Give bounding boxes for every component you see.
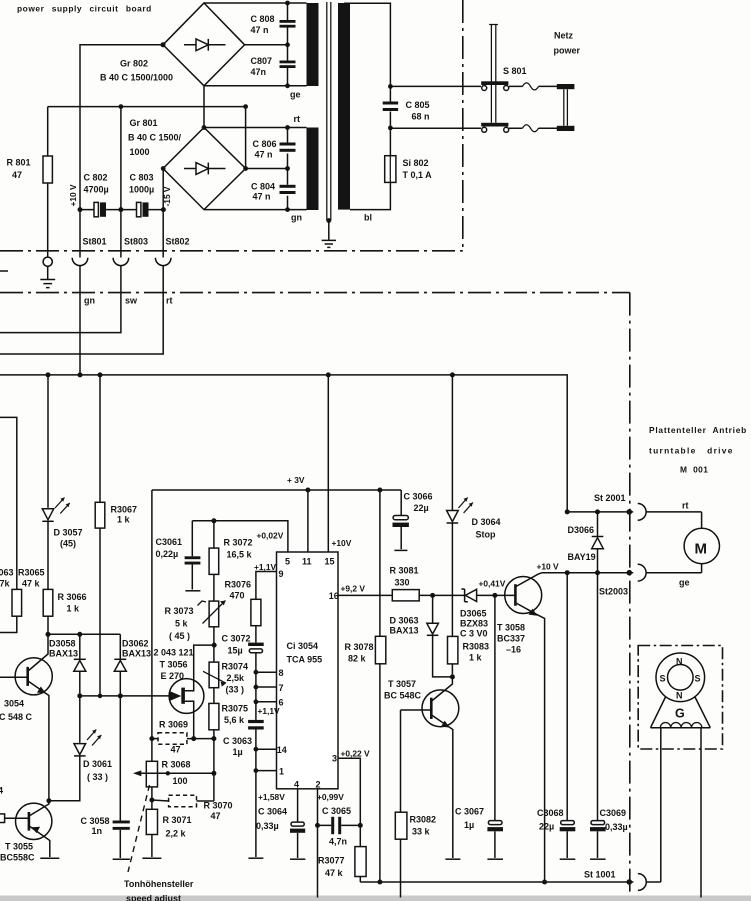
capacitor C3068 22u — [537, 573, 575, 860]
svg-text:1µ: 1µ — [233, 747, 243, 757]
wire rt line from Gr801 top — [204, 127, 307, 129]
resistor R3070 47 (dashed) — [149, 795, 232, 821]
svg-text:1µ: 1µ — [464, 820, 474, 830]
connector St2001 — [594, 493, 702, 520]
svg-text:15: 15 — [325, 557, 335, 567]
svg-text:4: 4 — [294, 780, 299, 790]
svg-text:T 3056: T 3056 — [160, 660, 188, 670]
wire pin 3 — [338, 758, 360, 825]
svg-text:82 k: 82 k — [348, 654, 367, 664]
svg-text:(33 ): (33 ) — [226, 685, 245, 695]
svg-text:1n: 1n — [92, 826, 103, 836]
capacitor C802 4700u — [78, 173, 124, 217]
svg-text:R 3078: R 3078 — [345, 642, 374, 652]
svg-text:+10 V: +10 V — [68, 184, 78, 207]
wire pin 15 to +10V rail — [327, 375, 329, 552]
wire +10V top rail of main board — [0, 375, 567, 512]
wire Gr802 top to transformer — [204, 2, 307, 4]
svg-text:C3061: C3061 — [156, 537, 183, 547]
potentiometer R3068 100 — [133, 739, 216, 810]
svg-text:C 3064: C 3064 — [258, 807, 287, 817]
transformer core — [327, 2, 331, 221]
resistor R3067 1k — [95, 375, 137, 696]
svg-text:D 3064: D 3064 — [472, 517, 501, 527]
svg-text:11: 11 — [302, 557, 312, 567]
svg-text:D3065: D3065 — [460, 609, 487, 619]
IC Ci3054 TCA955 — [277, 552, 339, 790]
svg-text:rt: rt — [682, 501, 689, 511]
svg-text:(45): (45) — [60, 539, 76, 549]
svg-text:C 3 V0: C 3 V0 — [460, 629, 488, 639]
motor M001 — [684, 512, 719, 573]
svg-text:C 808: C 808 — [251, 14, 275, 24]
svg-text:47 n: 47 n — [253, 192, 271, 202]
svg-text:BAX13: BAX13 — [122, 649, 151, 659]
svg-text:1 k: 1 k — [469, 653, 483, 663]
chassis ground symbol — [40, 266, 55, 287]
svg-text:C 803: C 803 — [130, 173, 154, 183]
svg-text:Tonhöhensteller: Tonhöhensteller — [124, 879, 194, 889]
resistor R801 — [7, 107, 53, 257]
svg-text:ge: ge — [290, 90, 301, 100]
wire stub at left edge — [0, 270, 8, 272]
capacitor C804 47n — [251, 169, 296, 210]
svg-text:B 40 C 1500/: B 40 C 1500/ — [128, 133, 182, 143]
wire primary bottom to fuse — [350, 182, 390, 209]
wire St2001 line — [567, 511, 633, 513]
svg-text:( 45 ): ( 45 ) — [169, 631, 190, 641]
svg-text:BZX83: BZX83 — [460, 619, 488, 629]
connector St2003 — [599, 564, 702, 596]
svg-text:T 3055: T 3055 — [5, 842, 33, 852]
svg-text:R3083: R3083 — [463, 642, 490, 652]
capacitor C808 47n — [251, 3, 296, 45]
svg-text:BAY19: BAY19 — [568, 552, 596, 562]
svg-text:470: 470 — [230, 591, 245, 601]
capacitor C806 47n — [253, 128, 296, 169]
svg-text:8: 8 — [279, 668, 284, 678]
ground terminal circle — [43, 257, 52, 266]
svg-text:47 k: 47 k — [22, 579, 41, 589]
ground stub under C3063 line — [248, 857, 263, 859]
svg-text:4700µ: 4700µ — [84, 185, 109, 195]
node at St803 tap — [119, 104, 124, 109]
capacitor C3067 1u — [455, 595, 503, 859]
resistor R3076 470 — [225, 580, 261, 626]
svg-text:1 k: 1 k — [67, 604, 81, 614]
svg-text:1: 1 — [279, 767, 284, 777]
transistor T3055 BC558C — [0, 786, 59, 863]
svg-text:St2003: St2003 — [599, 587, 628, 597]
svg-text:R 3072: R 3072 — [224, 538, 253, 548]
svg-text:C 3065: C 3065 — [322, 806, 351, 816]
svg-text:R 3066: R 3066 — [58, 592, 87, 602]
svg-text:+10 V: +10 V — [537, 562, 560, 572]
resistor R3081 330 — [390, 566, 465, 601]
bridge rectifier Gr802 — [100, 3, 245, 86]
capacitor C3065 4,7n — [315, 806, 363, 847]
svg-text:R3065: R3065 — [18, 568, 45, 578]
svg-text:7: 7 — [279, 683, 284, 693]
generator G box (dash-dot) — [638, 646, 722, 750]
wire sw from St803 to left edge — [0, 266, 121, 333]
resistor R3078 82k — [345, 490, 386, 882]
svg-text:Plattenteller Antrieb: Plattenteller Antrieb — [649, 425, 747, 435]
capacitor C3063 1u — [223, 720, 264, 857]
capacitor C803 1000u — [121, 173, 166, 217]
wires pins 14 and 1 — [256, 749, 277, 770]
wire Gr802 bottom to Gr801 top — [203, 86, 205, 128]
svg-text:Gr 801: Gr 801 — [130, 118, 158, 128]
svg-text:+1,1V: +1,1V — [254, 562, 277, 572]
svg-text:D 3057: D 3057 — [54, 528, 83, 538]
diode D3062 BAX13 — [114, 634, 151, 696]
capacitor C3069 0,33u — [590, 573, 628, 860]
svg-text:47: 47 — [12, 170, 22, 180]
svg-text:R 801: R 801 — [7, 158, 31, 168]
svg-text:M 001: M 001 — [680, 465, 708, 475]
node drain tap — [213, 627, 215, 662]
svg-text:C 3063: C 3063 — [223, 736, 252, 746]
power supply board border (dash-dot) — [0, 0, 463, 251]
svg-text:3054: 3054 — [4, 699, 24, 709]
svg-text:R 3073: R 3073 — [165, 606, 194, 616]
svg-text:16,5 k: 16,5 k — [227, 550, 253, 560]
svg-text:T 0,1 A: T 0,1 A — [403, 170, 433, 180]
switch S801 — [390, 25, 526, 133]
svg-text:C 804: C 804 — [251, 182, 275, 192]
wire Gr802 bottom (ge) — [204, 85, 307, 87]
svg-text:5 k: 5 k — [175, 619, 189, 629]
core centre tap to ground — [322, 218, 336, 247]
svg-text:St 1001: St 1001 — [584, 870, 616, 880]
node at corner — [243, 104, 248, 109]
svg-text:C 548 C: C 548 C — [0, 712, 33, 722]
svg-text:15µ: 15µ — [228, 646, 243, 656]
connector St803 — [113, 237, 148, 266]
svg-text:R3075: R3075 — [222, 704, 249, 714]
capacitor C807 47n — [251, 45, 296, 86]
resistor R3069 47 (dashed) — [149, 720, 216, 755]
wire gn from St801 to +10V rail — [79, 266, 81, 375]
svg-text:0,33µ: 0,33µ — [256, 821, 279, 831]
svg-text:330: 330 — [395, 578, 410, 588]
svg-text:C807: C807 — [251, 56, 273, 66]
svg-text:R3063: R3063 — [0, 568, 14, 578]
generator yoke and coil — [651, 697, 711, 728]
svg-text:BAX13: BAX13 — [390, 626, 419, 636]
svg-text:Stop: Stop — [476, 530, 496, 540]
trimmer R3073 5k (45) — [165, 574, 226, 641]
svg-text:S 801: S 801 — [503, 66, 527, 76]
fuse Si802 T 0,1 A — [385, 128, 432, 182]
svg-text:+1,1V: +1,1V — [258, 706, 281, 716]
svg-text:R3082: R3082 — [410, 815, 437, 825]
transformer secondary winding 2 — [307, 128, 319, 211]
capacitor C3058 1n — [81, 696, 130, 859]
node Gr801 corners — [202, 125, 207, 130]
transistor T3057 BC548C — [384, 677, 460, 859]
svg-text:D 3061: D 3061 — [83, 759, 112, 769]
transformer secondary winding 1 — [307, 3, 319, 86]
svg-text:3: 3 — [332, 754, 337, 764]
svg-text:Netz: Netz — [554, 31, 574, 41]
svg-text:T 3058: T 3058 — [497, 623, 525, 633]
svg-text:R 3069: R 3069 — [159, 720, 188, 730]
svg-text:R3076: R3076 — [225, 580, 252, 590]
zener D3065 BZX83 C3V0 — [460, 589, 495, 639]
svg-text:22µ: 22µ — [539, 822, 554, 832]
svg-text:St801: St801 — [83, 237, 107, 247]
wire ground rail St1001 — [360, 881, 633, 883]
svg-text:speed adjust: speed adjust — [126, 894, 181, 901]
capacitor C3066 22u — [393, 490, 433, 550]
svg-text:47: 47 — [171, 745, 181, 755]
wire pin5 top row — [192, 521, 288, 552]
svg-text:47 n: 47 n — [251, 25, 269, 35]
svg-text:9: 9 — [279, 569, 284, 579]
wire pin 4 — [297, 789, 299, 822]
svg-text:D3058: D3058 — [49, 639, 76, 649]
svg-text:+1,58V: +1,58V — [258, 792, 285, 802]
LED D3064 Stop — [447, 375, 501, 637]
svg-text:T 3057: T 3057 — [388, 679, 416, 689]
wire rt from St802 to left edge — [0, 266, 163, 354]
svg-text:33 k: 33 k — [412, 827, 431, 837]
resistor R3075 5,6k — [209, 688, 248, 739]
diode D3058 BAX13 — [49, 634, 86, 696]
wire +3V rail — [152, 489, 401, 491]
svg-text:2 043 121: 2 043 121 — [154, 648, 194, 658]
svg-text:Gr 802: Gr 802 — [120, 59, 148, 69]
svg-text:N: N — [676, 657, 683, 667]
svg-text:R3067: R3067 — [111, 505, 138, 515]
chassis frame dash-dot line / main board border — [0, 293, 630, 893]
wire St803 line — [120, 107, 122, 258]
svg-text:bl: bl — [364, 213, 372, 223]
wire node row D3058/D3062 — [48, 633, 120, 635]
svg-text:gn: gn — [84, 296, 95, 306]
svg-text:S: S — [660, 674, 666, 684]
svg-text:M: M — [695, 541, 708, 558]
svg-text:ge: ge — [679, 578, 690, 588]
svg-text:G: G — [675, 707, 685, 721]
resistor R3065 47k (R3063 labels partly cut at edge) — [0, 417, 45, 632]
svg-text:B 40 C 1500/1000: B 40 C 1500/1000 — [100, 73, 173, 83]
transistor T3054 BC548C — [0, 634, 52, 800]
svg-text:S: S — [695, 674, 701, 684]
svg-text:D3062: D3062 — [122, 639, 149, 649]
wire left supply line down from +3V rail — [151, 490, 153, 761]
svg-text:100: 100 — [173, 776, 188, 786]
svg-text:C3069: C3069 — [600, 808, 627, 818]
LED D3057 (45) — [42, 375, 82, 590]
svg-text:C 3058: C 3058 — [81, 816, 110, 826]
capacitor C805 68n — [383, 84, 430, 130]
svg-text:R 3081: R 3081 — [390, 566, 419, 576]
connector St802 — [155, 237, 189, 266]
svg-text:–16: –16 — [506, 645, 521, 655]
node Gr802 left corner — [161, 42, 166, 47]
svg-text:C 802: C 802 — [84, 173, 108, 183]
svg-text:1 k: 1 k — [117, 515, 131, 525]
svg-text:+0,99V: +0,99V — [317, 792, 344, 802]
svg-text:BAX13: BAX13 — [49, 649, 78, 659]
wire primary top to switch rail — [344, 3, 390, 86]
svg-text:1000µ: 1000µ — [129, 185, 154, 195]
bottom scan strip — [0, 896, 751, 901]
svg-text:+9,2 V: +9,2 V — [341, 584, 366, 594]
wire pin 16 line +9,2V — [338, 594, 392, 596]
resistor R3082 33k — [395, 710, 436, 898]
svg-text:R3074: R3074 — [222, 662, 249, 672]
svg-text:0,22µ: 0,22µ — [156, 549, 179, 559]
svg-text:R 3071: R 3071 — [163, 815, 192, 825]
svg-text:D3066: D3066 — [568, 525, 595, 535]
svg-text:R3077: R3077 — [318, 856, 345, 866]
bridge rectifier Gr801 — [128, 118, 246, 210]
svg-text:R 3070: R 3070 — [204, 801, 233, 811]
svg-text:2,2 k: 2,2 k — [166, 829, 187, 839]
trimmer R3074 2,5k (33) — [203, 662, 248, 695]
svg-text:BC 548C: BC 548C — [384, 691, 422, 701]
svg-text:64: 64 — [0, 786, 3, 796]
svg-text:+0,22 V: +0,22 V — [341, 749, 371, 759]
flexible lead squiggles and mains terminal — [509, 31, 581, 132]
transistor T3056 E270 (FET) — [154, 645, 215, 739]
svg-text:68 n: 68 n — [412, 112, 430, 122]
svg-text:47 n: 47 n — [255, 150, 273, 160]
svg-text:St 2001: St 2001 — [594, 493, 626, 503]
wire Gr802 right corner — [245, 44, 288, 46]
svg-text:2,5k: 2,5k — [227, 673, 246, 683]
capacitor C3061 0,22u — [156, 521, 201, 591]
LED D3061 (33) — [49, 696, 112, 801]
svg-text:4,7n: 4,7n — [329, 837, 347, 847]
svg-text:rt: rt — [294, 114, 301, 124]
svg-text:+0,02V: +0,02V — [257, 531, 284, 541]
wire generator left lead — [660, 728, 662, 882]
connector St1001 — [638, 874, 661, 891]
svg-text:gn: gn — [291, 213, 302, 223]
svg-text:sw: sw — [125, 296, 138, 306]
generator magnet circles — [656, 653, 705, 702]
wire St802 line — [162, 169, 164, 258]
resistor R3083 1k — [448, 636, 490, 677]
svg-text:( 33 ): ( 33 ) — [87, 772, 108, 782]
svg-text:TCA 955: TCA 955 — [287, 655, 323, 665]
resistor R3072 16,5k — [209, 521, 252, 575]
svg-text:D 3063: D 3063 — [390, 616, 419, 626]
wire gate row to T3056 — [80, 695, 171, 697]
svg-text:BC337: BC337 — [497, 634, 525, 644]
wire pin 11 to +3V — [307, 490, 309, 552]
svg-text:14: 14 — [277, 745, 287, 755]
svg-text:BC558C: BC558C — [0, 853, 35, 863]
transistor T3058 BC337 — [495, 573, 545, 882]
svg-text:E 270: E 270 — [161, 671, 185, 681]
wire pin 2 — [317, 789, 319, 898]
svg-text:47n: 47n — [251, 67, 267, 77]
svg-text:+ 3V: + 3V — [287, 475, 305, 485]
svg-text:Si 802: Si 802 — [403, 158, 429, 168]
svg-text:R 3068: R 3068 — [162, 760, 191, 770]
wire pin 9 to R3076 — [256, 572, 277, 600]
connector St801 — [72, 210, 106, 266]
svg-text:C 806: C 806 — [253, 139, 277, 149]
wire Gr801 bottom (gn) — [204, 209, 307, 211]
svg-text:C 3066: C 3066 — [404, 492, 433, 502]
svg-text:5,6 k: 5,6 k — [224, 715, 245, 725]
transformer primary winding — [338, 3, 350, 210]
diode D3063 BAX13 — [390, 595, 453, 677]
resistor R3066 1k — [43, 589, 86, 634]
svg-text:0,33µ: 0,33µ — [605, 822, 628, 832]
wire generator right lead — [700, 728, 702, 898]
svg-text:47: 47 — [211, 811, 221, 821]
svg-text:C3068: C3068 — [537, 808, 564, 818]
svg-text:1000: 1000 — [130, 147, 150, 157]
svg-text:turntable drive: turntable drive — [649, 446, 734, 456]
dashed pointer line to speed adjust — [128, 785, 150, 872]
svg-text:Ci 3054: Ci 3054 — [287, 641, 319, 651]
svg-text:power supply circuit board: power supply circuit board — [17, 4, 152, 14]
capacitor C3072 15u — [222, 626, 264, 673]
wires pins 8 7 6 — [256, 672, 277, 702]
svg-text:16: 16 — [329, 591, 339, 601]
svg-text:C 805: C 805 — [406, 100, 430, 110]
svg-text:+0,41V: +0,41V — [479, 579, 506, 589]
wire +10V / St2003 line — [542, 572, 633, 574]
svg-text:5: 5 — [285, 557, 290, 567]
svg-text:power: power — [554, 46, 581, 56]
svg-text:47 k: 47 k — [325, 868, 344, 878]
svg-text:+10V: +10V — [332, 538, 352, 548]
wire Gr801 right corner — [246, 168, 288, 170]
svg-text:C 3067: C 3067 — [455, 807, 484, 817]
wire 0V line from R801 to Gr801 right corner — [48, 107, 246, 169]
resistor R3071 2,2k — [142, 809, 191, 858]
svg-text:St803: St803 — [124, 237, 148, 247]
svg-text:N: N — [676, 691, 683, 701]
svg-text:C 3072: C 3072 — [222, 634, 251, 644]
capacitor C3064 0,33u — [256, 807, 305, 860]
svg-text:22µ: 22µ — [414, 503, 429, 513]
svg-text:rt: rt — [166, 296, 173, 306]
svg-text:47k: 47k — [0, 579, 11, 589]
diode D3066 BAY19 — [568, 512, 604, 573]
wire +10V line to Gr802 left corner — [80, 45, 163, 210]
resistor R3077 47k — [318, 825, 366, 882]
svg-text:2: 2 — [316, 780, 321, 790]
svg-text:St802: St802 — [166, 237, 190, 247]
